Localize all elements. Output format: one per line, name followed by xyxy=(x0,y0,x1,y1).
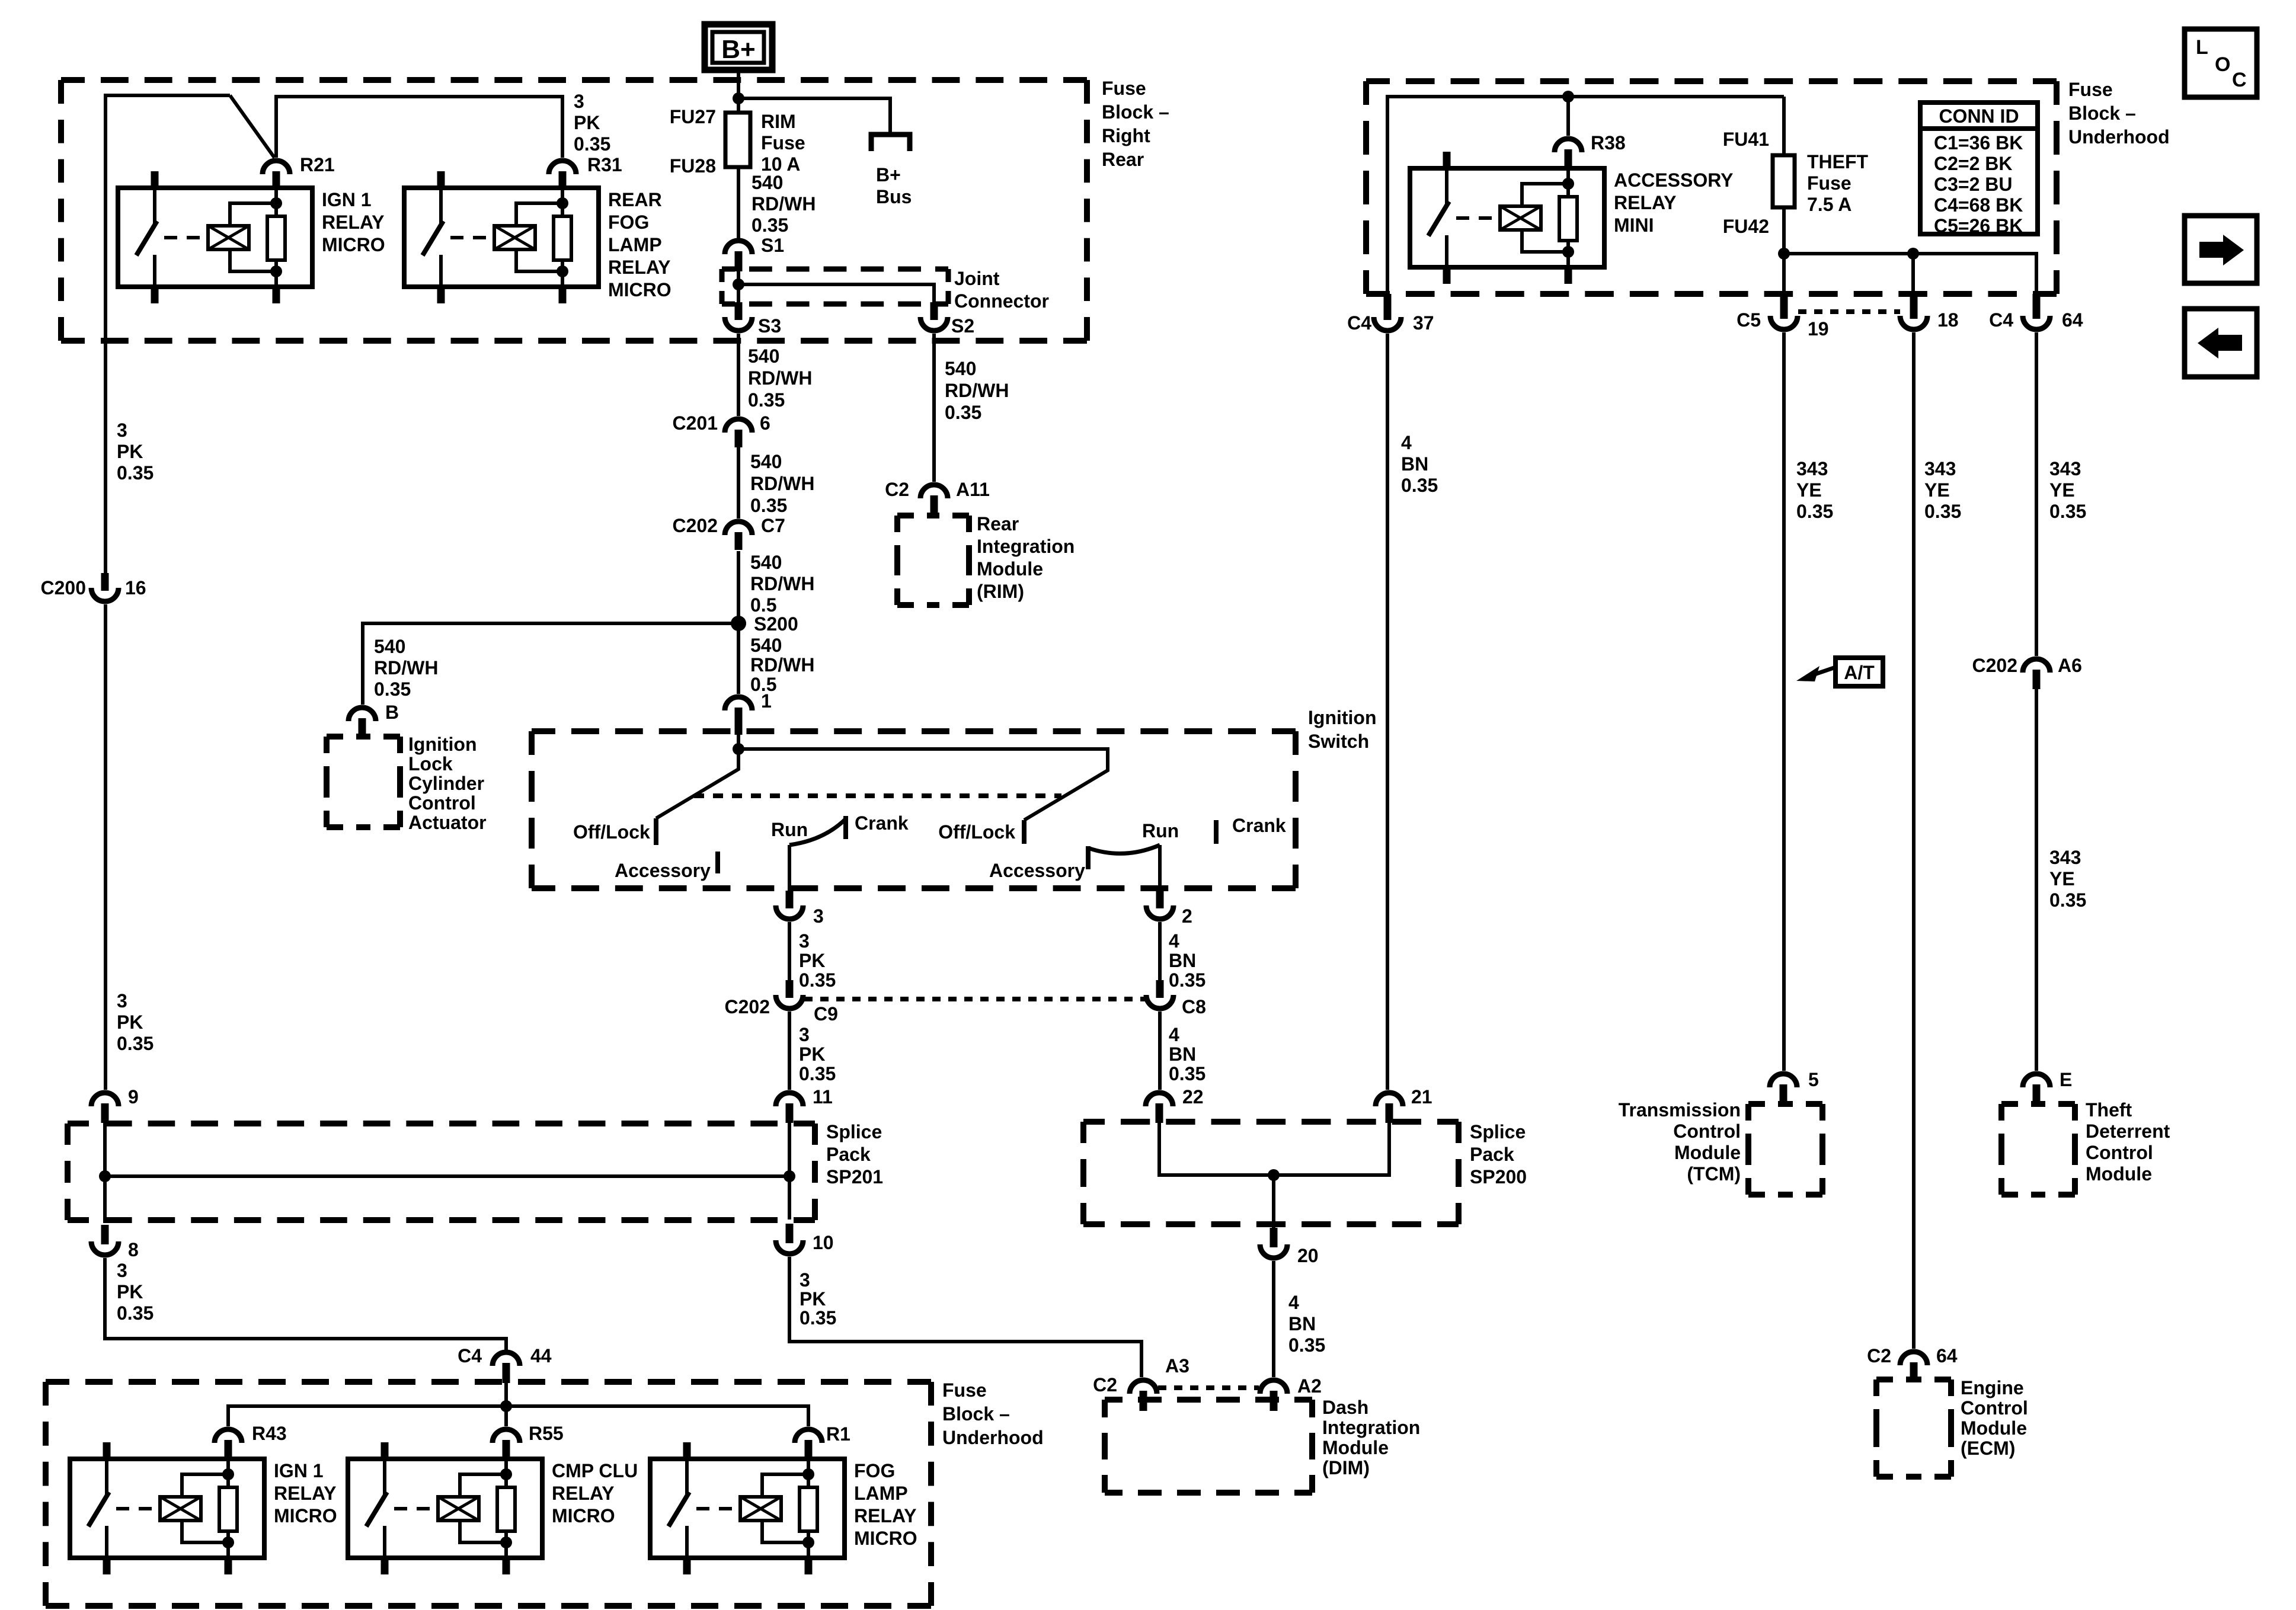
svg-text:Run: Run xyxy=(1142,820,1179,841)
connector 3 below ignition switch xyxy=(776,905,803,919)
svg-text:LAMP: LAMP xyxy=(854,1483,908,1504)
svg-text:Fuse: Fuse xyxy=(1102,78,1146,99)
svg-text:MINI: MINI xyxy=(1614,215,1654,236)
svg-text:0.35: 0.35 xyxy=(1924,501,1961,522)
fuse FU41/FU42 THEFT fuse xyxy=(1782,97,1786,155)
svg-text:3: 3 xyxy=(813,905,824,927)
svg-text:20: 20 xyxy=(1297,1245,1319,1266)
relay R31 coil wires xyxy=(516,203,562,226)
connector 22 xyxy=(1146,1093,1173,1106)
svg-text:Fuse: Fuse xyxy=(1807,172,1851,194)
svg-text:Control: Control xyxy=(1673,1121,1741,1142)
svg-text:IGN 1: IGN 1 xyxy=(322,189,372,210)
pole 1 Accessory contact xyxy=(715,852,720,873)
svg-text:Module: Module xyxy=(1322,1437,1389,1458)
svg-text:4: 4 xyxy=(1169,1024,1179,1045)
svg-text:Underhood: Underhood xyxy=(942,1427,1044,1448)
connector R1 xyxy=(795,1429,822,1443)
pole 2 Crank contact xyxy=(1214,820,1219,844)
svg-text:A11: A11 xyxy=(956,479,990,500)
relay R43 pin stubs xyxy=(103,1442,111,1459)
svg-text:Connector: Connector xyxy=(954,290,1049,312)
svg-text:Module: Module xyxy=(1961,1417,2027,1439)
svg-text:Pack: Pack xyxy=(1470,1144,1514,1165)
svg-text:Right: Right xyxy=(1102,125,1150,146)
relay R1 junction dots xyxy=(802,1468,814,1480)
svg-text:3: 3 xyxy=(800,1269,810,1291)
svg-text:0.35: 0.35 xyxy=(748,389,785,411)
svg-text:Control: Control xyxy=(1961,1397,2028,1419)
svg-text:SP200: SP200 xyxy=(1470,1166,1527,1188)
wire S3 down to C201 xyxy=(737,334,740,416)
svg-text:FU42: FU42 xyxy=(1723,216,1769,237)
svg-text:C4=68 BK: C4=68 BK xyxy=(1934,194,2023,216)
relay R43 box xyxy=(70,1459,264,1558)
connector 20 xyxy=(1260,1244,1287,1258)
wire C202 to splice S200 xyxy=(737,551,740,694)
svg-text:0.35: 0.35 xyxy=(750,495,787,516)
wire top to R31 xyxy=(276,97,562,158)
SP200 internal wires xyxy=(1159,1122,1389,1175)
wire below theft fuse xyxy=(1782,207,1786,295)
svg-text:R31: R31 xyxy=(587,154,622,175)
svg-text:C2=2 BK: C2=2 BK xyxy=(1934,153,2013,174)
wire connector 2 to C8 xyxy=(1158,922,1162,980)
svg-text:2: 2 xyxy=(1182,905,1192,927)
svg-text:10: 10 xyxy=(813,1232,834,1253)
svg-text:IGN 1: IGN 1 xyxy=(274,1460,324,1481)
fuse block underhood dashed box top right xyxy=(1366,78,1390,84)
wire A6 down to E xyxy=(2035,689,2038,1071)
svg-text:YE: YE xyxy=(2049,868,2075,889)
svg-text:3: 3 xyxy=(799,1024,810,1045)
svg-text:Module: Module xyxy=(1674,1142,1741,1163)
svg-text:343: 343 xyxy=(1924,458,1956,479)
relay R55 coil wires xyxy=(460,1474,506,1497)
svg-text:YE: YE xyxy=(1796,479,1822,501)
relay R21 resistor wires xyxy=(274,188,278,216)
svg-text:C4: C4 xyxy=(458,1345,482,1366)
connector C202 A6 xyxy=(2023,659,2050,673)
dash integration module dashed box xyxy=(1105,1397,1123,1403)
svg-text:540: 540 xyxy=(374,636,405,657)
svg-text:0.35: 0.35 xyxy=(117,1033,154,1054)
wire into ignition switch xyxy=(737,725,740,749)
pole 1 Crank contact xyxy=(843,816,848,839)
svg-text:Control: Control xyxy=(408,792,476,814)
svg-text:Control: Control xyxy=(2086,1142,2153,1163)
svg-text:Run: Run xyxy=(771,819,808,840)
svg-text:64: 64 xyxy=(1936,1345,1958,1366)
svg-text:FOG: FOG xyxy=(854,1460,895,1481)
connector C200 cavity 16 xyxy=(91,588,119,601)
wire to B+ bus xyxy=(738,98,890,133)
svg-text:R1: R1 xyxy=(826,1423,850,1445)
connector S3 xyxy=(725,317,752,331)
svg-text:R21: R21 xyxy=(300,154,335,175)
svg-text:343: 343 xyxy=(2049,847,2081,868)
connector 2 below ignition switch xyxy=(1146,905,1173,919)
svg-text:Accessory: Accessory xyxy=(615,860,711,881)
svg-text:PK: PK xyxy=(799,1044,825,1065)
svg-text:Fuse: Fuse xyxy=(2068,79,2113,100)
svg-text:ACCESSORY: ACCESSORY xyxy=(1614,169,1734,191)
connector 5 TCM xyxy=(1770,1074,1797,1087)
splice pack SP200 dashed box xyxy=(1083,1119,1105,1125)
svg-text:RELAY: RELAY xyxy=(608,257,671,278)
CONN ID table xyxy=(1920,103,2038,234)
A/T arrow xyxy=(1811,667,1835,676)
joint connector internal wires xyxy=(737,271,740,302)
left wire down from fuse block xyxy=(104,604,107,1090)
svg-text:L: L xyxy=(2196,36,2208,59)
wire 8 to C4 44 xyxy=(105,1258,506,1350)
svg-text:0.35: 0.35 xyxy=(800,1307,836,1329)
svg-text:540: 540 xyxy=(750,451,782,472)
pole 2 Accessory contact xyxy=(1086,846,1091,869)
svg-text:RD/WH: RD/WH xyxy=(752,193,816,215)
relay R21 switch contact xyxy=(153,188,156,226)
relay R38 resistor xyxy=(1559,197,1577,241)
svg-text:Off/Lock: Off/Lock xyxy=(573,821,650,843)
svg-text:Crank: Crank xyxy=(1232,815,1286,836)
svg-text:C4: C4 xyxy=(1989,309,2013,331)
svg-text:A/T: A/T xyxy=(1844,662,1875,683)
svg-text:BN: BN xyxy=(1169,950,1196,971)
svg-text:0.35: 0.35 xyxy=(574,133,610,155)
svg-text:FU41: FU41 xyxy=(1723,129,1769,150)
wire to R38 xyxy=(1566,97,1570,136)
SP201 internal wires xyxy=(103,1123,107,1223)
svg-text:BN: BN xyxy=(1288,1313,1316,1334)
svg-text:O: O xyxy=(2215,53,2230,76)
connector C2 A11 xyxy=(920,485,948,498)
connector R43 xyxy=(215,1429,242,1443)
relay R38 switch contact xyxy=(1445,168,1448,206)
svg-text:11: 11 xyxy=(813,1086,833,1108)
svg-text:44: 44 xyxy=(530,1345,552,1366)
connector R31 xyxy=(549,161,576,174)
arrow legend right xyxy=(2185,216,2257,283)
svg-text:540: 540 xyxy=(750,552,782,573)
connector R55 xyxy=(493,1429,520,1443)
relay R55 resistor wires xyxy=(504,1459,508,1487)
svg-text:3: 3 xyxy=(117,420,127,441)
connector 1 ignition switch xyxy=(725,697,752,710)
svg-text:MICRO: MICRO xyxy=(608,279,671,300)
svg-text:Module: Module xyxy=(2086,1163,2152,1185)
ignition switch junction dot xyxy=(733,743,744,755)
svg-text:MICRO: MICRO xyxy=(274,1505,337,1526)
relay R31 resistor wires xyxy=(561,188,564,216)
relay R1 coil xyxy=(740,1497,781,1521)
relay R38 actuation dashed link xyxy=(1456,216,1499,220)
dotted line A3 to A2 xyxy=(1158,1385,1259,1390)
svg-text:4: 4 xyxy=(1288,1292,1299,1313)
svg-text:RELAY: RELAY xyxy=(322,212,385,233)
svg-text:4: 4 xyxy=(1169,930,1179,952)
svg-text:Deterrent: Deterrent xyxy=(2086,1121,2170,1142)
wire S2 down to RIM xyxy=(932,334,936,482)
svg-text:MICRO: MICRO xyxy=(552,1505,615,1526)
svg-text:0.35: 0.35 xyxy=(2049,501,2086,522)
junction dot at 44 xyxy=(500,1400,512,1412)
wire 10 to DIM A3 xyxy=(789,1257,1141,1377)
svg-text:PK: PK xyxy=(574,112,600,133)
pole 2 Run contact curve xyxy=(1088,845,1160,853)
wire 19 down to TCM xyxy=(1782,332,1786,1071)
svg-text:Integration: Integration xyxy=(1322,1417,1420,1438)
svg-text:Integration: Integration xyxy=(977,536,1075,557)
connector 21 xyxy=(1376,1093,1403,1106)
relay R43 junction dots xyxy=(222,1468,234,1480)
wire C201 to C202 xyxy=(737,447,740,518)
fuse FU27/FU28 RIM Fuse 10A xyxy=(725,113,750,167)
pole 1 Run contact curve xyxy=(789,819,846,845)
connector C4 64 xyxy=(2023,316,2050,329)
svg-text:R43: R43 xyxy=(252,1423,287,1444)
svg-text:PK: PK xyxy=(117,441,143,462)
relay R38 pin stubs xyxy=(1443,152,1451,168)
svg-text:FU28: FU28 xyxy=(670,155,716,177)
svg-text:5: 5 xyxy=(1808,1069,1819,1090)
wire down to R55 xyxy=(504,1406,508,1426)
svg-text:(TCM): (TCM) xyxy=(1687,1163,1741,1185)
svg-text:RD/WH: RD/WH xyxy=(750,473,814,494)
B+ power symbol box xyxy=(705,24,772,70)
svg-text:Module: Module xyxy=(977,558,1043,580)
svg-text:343: 343 xyxy=(1796,458,1828,479)
svg-text:(DIM): (DIM) xyxy=(1322,1457,1370,1478)
svg-text:Crank: Crank xyxy=(855,812,909,834)
svg-text:540: 540 xyxy=(945,358,976,379)
svg-text:C2: C2 xyxy=(1867,1345,1891,1366)
svg-text:RELAY: RELAY xyxy=(854,1505,917,1526)
joint connector dashed box xyxy=(722,267,735,272)
B+ bus symbol xyxy=(871,135,910,151)
svg-text:3: 3 xyxy=(117,1260,127,1281)
relay R31 switch contact xyxy=(439,188,443,226)
relay R38 coil wires xyxy=(1522,184,1568,206)
relay R21 box xyxy=(118,188,312,287)
svg-text:7.5 A: 7.5 A xyxy=(1807,194,1851,215)
relay R55 junction dots xyxy=(500,1468,512,1480)
junction dot below B+ xyxy=(733,92,744,104)
relay R1 coil wires xyxy=(762,1474,808,1497)
svg-text:Theft: Theft xyxy=(2086,1099,2132,1121)
ignition lock cylinder control actuator dashed box xyxy=(327,734,343,740)
relay R55 coil xyxy=(438,1497,479,1521)
relay R21 junction dots xyxy=(270,197,282,209)
theft deterrent control module dashed box xyxy=(2001,1101,2018,1107)
wire B+ to fuse block xyxy=(737,70,740,114)
relay R21 resistor xyxy=(267,216,285,260)
connector A2 xyxy=(1260,1380,1287,1394)
svg-text:C4: C4 xyxy=(1347,312,1371,334)
wire C9 to connector 11 xyxy=(788,1012,791,1090)
splice pack SP201 dashed box xyxy=(68,1121,89,1126)
svg-text:0.35: 0.35 xyxy=(1169,1063,1205,1084)
svg-text:RELAY: RELAY xyxy=(274,1483,337,1504)
svg-text:Fuse: Fuse xyxy=(942,1379,987,1401)
svg-text:Ignition: Ignition xyxy=(1308,707,1377,728)
svg-text:A2: A2 xyxy=(1297,1375,1322,1397)
svg-text:C: C xyxy=(2232,69,2247,91)
svg-text:Lock: Lock xyxy=(408,753,453,774)
svg-text:(RIM): (RIM) xyxy=(977,581,1024,602)
splice S200 xyxy=(731,616,746,631)
svg-text:C202: C202 xyxy=(673,515,718,536)
pole 1 Off/Lock contact xyxy=(654,818,658,845)
joint connector junction dot xyxy=(733,279,744,290)
svg-text:S1: S1 xyxy=(761,235,784,256)
connector 9 splice pack xyxy=(91,1093,119,1106)
relay R21 actuation dashed link xyxy=(164,236,207,239)
svg-text:Off/Lock: Off/Lock xyxy=(938,821,1015,843)
svg-text:21: 21 xyxy=(1411,1086,1432,1108)
svg-text:R38: R38 xyxy=(1591,132,1626,153)
connector R38 xyxy=(1555,139,1582,152)
svg-text:3: 3 xyxy=(799,930,810,952)
svg-text:18: 18 xyxy=(1937,309,1959,331)
svg-text:SP201: SP201 xyxy=(826,1166,883,1188)
connector S2 xyxy=(920,317,948,331)
svg-text:REAR: REAR xyxy=(608,189,662,210)
connector C4 44 xyxy=(493,1352,520,1366)
relay R21 coil wires xyxy=(230,203,276,226)
svg-text:E: E xyxy=(2060,1069,2072,1090)
relay R38 resistor wires xyxy=(1566,168,1570,197)
svg-text:Accessory: Accessory xyxy=(989,860,1085,881)
svg-text:0.35: 0.35 xyxy=(799,969,836,991)
wire to 18 xyxy=(1911,254,1915,295)
svg-text:FOG: FOG xyxy=(608,212,649,233)
svg-text:C7: C7 xyxy=(761,515,785,536)
relay R1 resistor xyxy=(800,1487,817,1531)
relay R55 box xyxy=(348,1459,542,1558)
ignition switch dashed box xyxy=(532,728,555,734)
svg-text:0.35: 0.35 xyxy=(374,678,411,700)
relay R55 resistor xyxy=(497,1487,515,1531)
relay R43 coil xyxy=(160,1497,201,1521)
svg-text:RD/WH: RD/WH xyxy=(945,380,1009,401)
svg-text:Block –: Block – xyxy=(942,1403,1010,1425)
svg-text:0.35: 0.35 xyxy=(117,1302,154,1324)
svg-text:9: 9 xyxy=(128,1086,139,1108)
mechanical coupling dotted line xyxy=(694,793,1061,798)
svg-text:Bus: Bus xyxy=(876,186,912,207)
svg-text:C5: C5 xyxy=(1737,309,1761,331)
svg-text:Transmission: Transmission xyxy=(1619,1099,1741,1121)
svg-text:Actuator: Actuator xyxy=(408,812,487,833)
svg-text:22: 22 xyxy=(1182,1086,1204,1108)
arrow legend left xyxy=(2185,309,2257,377)
svg-text:Block –: Block – xyxy=(2068,103,2136,124)
svg-text:THEFT: THEFT xyxy=(1807,151,1869,172)
svg-text:Rear: Rear xyxy=(977,513,1019,534)
wire to pole 2 xyxy=(738,749,1108,820)
svg-text:CONN ID: CONN ID xyxy=(1939,105,2019,127)
svg-text:PK: PK xyxy=(117,1281,143,1302)
svg-text:0.5: 0.5 xyxy=(750,594,776,616)
engine control module dashed box xyxy=(1876,1377,1893,1382)
svg-text:S3: S3 xyxy=(758,315,781,337)
connector C202 cavity C8 xyxy=(1146,995,1173,1009)
SP200 junction dot xyxy=(1268,1169,1280,1181)
wire 20 to A2 xyxy=(1272,1261,1275,1377)
relay R31 junction dots xyxy=(557,197,568,209)
relay R38 box xyxy=(1410,168,1604,267)
relay R21 pin stubs xyxy=(151,171,159,188)
svg-text:C5=26 BK: C5=26 BK xyxy=(1934,215,2023,236)
relay R31 coil xyxy=(494,226,535,249)
dotted line C9 to C8 xyxy=(804,997,1145,1001)
distribution wire in fuse block xyxy=(228,1406,808,1426)
svg-text:540: 540 xyxy=(748,345,779,367)
relay R55 actuation dashed link xyxy=(394,1507,437,1510)
svg-text:Rear: Rear xyxy=(1102,149,1144,170)
svg-text:YE: YE xyxy=(2049,479,2075,501)
relay R43 switch contact xyxy=(105,1459,108,1497)
pole 1 Run wire xyxy=(788,845,791,891)
svg-text:FU27: FU27 xyxy=(670,106,716,127)
svg-text:PK: PK xyxy=(117,1012,143,1033)
svg-text:Cylinder: Cylinder xyxy=(408,773,484,794)
svg-text:A6: A6 xyxy=(2058,655,2082,676)
svg-text:C2: C2 xyxy=(885,479,909,500)
connector S1 xyxy=(725,241,752,254)
svg-text:MICRO: MICRO xyxy=(322,234,385,255)
pole 2 Off/Lock contact xyxy=(1022,820,1027,844)
svg-text:R55: R55 xyxy=(529,1423,564,1444)
relay R43 resistor xyxy=(219,1487,237,1531)
svg-text:0.35: 0.35 xyxy=(1169,969,1205,991)
svg-text:RD/WH: RD/WH xyxy=(750,573,814,594)
fuse block underhood dashed box bottom xyxy=(46,1379,69,1385)
svg-text:RD/WH: RD/WH xyxy=(748,367,812,389)
svg-text:Dash: Dash xyxy=(1322,1397,1368,1418)
dotted line 19 to 18 xyxy=(1798,309,1900,314)
svg-text:RELAY: RELAY xyxy=(1614,192,1677,213)
relay R1 resistor wires xyxy=(807,1459,810,1487)
wire C4 44 into fuse block xyxy=(504,1383,508,1406)
connector E theft deterrent xyxy=(2023,1074,2050,1087)
svg-text:B: B xyxy=(385,702,399,723)
svg-text:37: 37 xyxy=(1413,312,1434,334)
relay R43 resistor wires xyxy=(226,1459,230,1487)
LOC legend box xyxy=(2185,29,2257,97)
top right feed wire xyxy=(1387,97,1784,295)
relay R38 coil xyxy=(1500,206,1541,230)
junction dot at 18 xyxy=(1907,248,1919,260)
svg-text:MICRO: MICRO xyxy=(854,1528,917,1549)
relay R31 actuation dashed link xyxy=(450,236,493,239)
svg-text:Engine: Engine xyxy=(1961,1377,2024,1398)
connector 18 xyxy=(1900,316,1927,329)
relay R43 actuation dashed link xyxy=(116,1507,159,1510)
relay R1 switch contact xyxy=(685,1459,689,1497)
svg-text:16: 16 xyxy=(125,577,146,598)
svg-text:RIM: RIM xyxy=(761,111,796,132)
connector C2 A3 xyxy=(1130,1380,1157,1394)
svg-text:S2: S2 xyxy=(951,315,974,337)
svg-text:Splice: Splice xyxy=(826,1121,882,1142)
wire 37 down to 21 xyxy=(1386,334,1389,1090)
relay R55 pin stubs xyxy=(381,1442,389,1459)
connector C202 cavity C7 xyxy=(725,521,752,535)
connector C2 64 ECM xyxy=(1900,1352,1927,1365)
relay R1 actuation dashed link xyxy=(696,1507,739,1510)
